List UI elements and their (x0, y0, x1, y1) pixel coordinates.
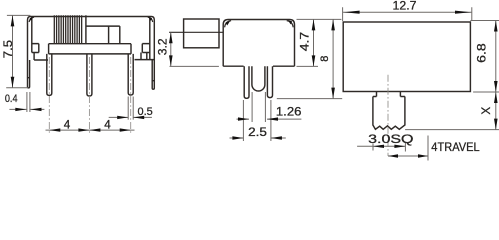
svg-text:1.26: 1.26 (276, 104, 302, 118)
svg-text:8: 8 (319, 56, 331, 62)
svg-text:2.5: 2.5 (248, 126, 267, 139)
svg-text:0.5: 0.5 (138, 106, 153, 118)
svg-text:12.7: 12.7 (393, 0, 417, 13)
svg-text:0.4: 0.4 (5, 93, 18, 105)
svg-text:4: 4 (64, 119, 71, 132)
svg-text:4TRAVEL: 4TRAVEL (431, 140, 480, 154)
svg-text:X: X (480, 107, 493, 115)
svg-text:6.8: 6.8 (476, 43, 489, 63)
svg-text:4: 4 (104, 119, 111, 132)
svg-text:4.7: 4.7 (298, 32, 311, 51)
svg-text:7.5: 7.5 (2, 39, 15, 58)
svg-text:3.2: 3.2 (157, 38, 170, 55)
svg-text:3.0SQ: 3.0SQ (368, 133, 413, 146)
